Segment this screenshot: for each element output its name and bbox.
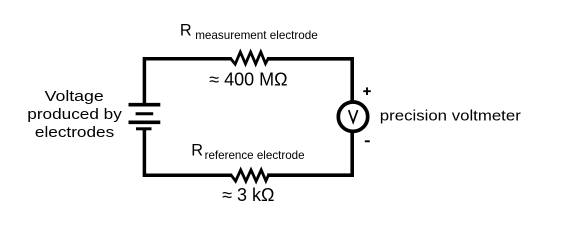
battery long plate 2 (+) — [129, 121, 161, 125]
svg-text:R: R — [191, 142, 203, 160]
svg-text:produced by: produced by — [27, 107, 122, 123]
wire top-right (top rail right segment down to voltmeter) — [267, 59, 352, 103]
battery long plate 1 (+) — [129, 103, 161, 107]
svg-text:measurement electrode: measurement electrode — [195, 29, 318, 42]
voltmeter V label — [349, 110, 358, 122]
svg-text:Voltage: Voltage — [45, 89, 104, 105]
voltmeter + terminal mark — [363, 87, 371, 95]
battery short plate 1 (-) — [136, 112, 154, 115]
battery short plate 2 (-) — [136, 127, 152, 130]
battery B1 plates — [129, 105, 161, 129]
svg-text:≈ 400 MΩ: ≈ 400 MΩ — [209, 70, 287, 90]
resistor R reference electrode (zigzag) — [231, 170, 268, 181]
resistor R measurement electrode (zigzag) — [231, 52, 268, 64]
wire top-left (battery top to top rail left segment) — [144, 59, 231, 104]
svg-text:R: R — [180, 22, 192, 40]
wire bottom-right (voltmeter down to bottom rail right segment) — [267, 131, 352, 175]
wire bottom-left (bottom rail left segment up to battery bottom) — [144, 129, 232, 176]
svg-text:reference electrode: reference electrode — [205, 149, 305, 162]
svg-text:electrodes: electrodes — [35, 125, 114, 141]
svg-text:≈ 3 kΩ: ≈ 3 kΩ — [222, 185, 274, 205]
voltmeter U1 circle — [338, 102, 367, 131]
svg-text:precision voltmeter: precision voltmeter — [380, 108, 521, 124]
voltmeter - terminal mark — [365, 140, 370, 142]
